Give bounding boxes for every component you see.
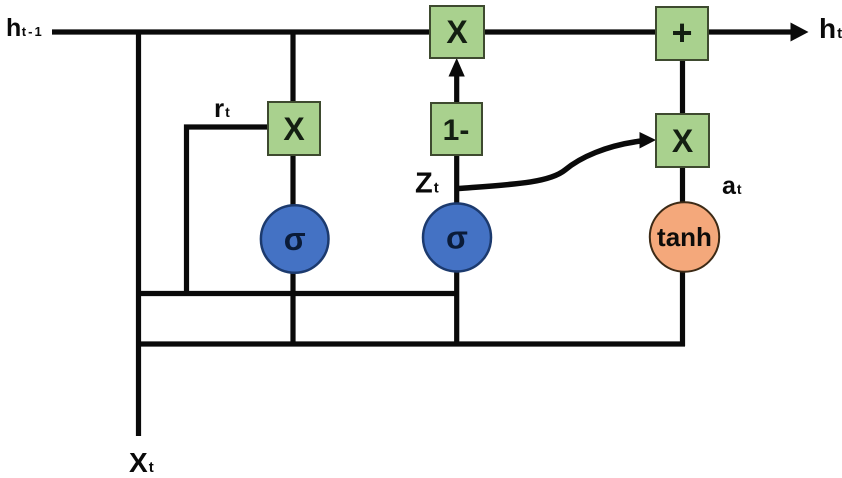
arrowhead: up into top X box (449, 58, 465, 77)
wire: X(t) input vertical (136, 30, 141, 437)
svg-text:X: X (446, 14, 468, 50)
wire: sigma2 (z gate) column vertical (454, 155, 459, 346)
arrowhead: output to h(t) (791, 23, 809, 42)
svg-text:1-: 1- (443, 114, 470, 147)
node: sigma2 circle (update gate) (423, 204, 491, 272)
svg-text:tanh: tanh (657, 222, 712, 252)
svg-text:X: X (283, 111, 305, 147)
svg-text:X: X (672, 123, 694, 159)
gate box: multiply X (top center) (430, 6, 484, 58)
svg-text:σ: σ (446, 220, 468, 256)
node: sigma1 circle (reset gate) (261, 205, 329, 273)
wire: curved z(t) arrow to right X gate (458, 141, 641, 189)
gate box: add + (656, 7, 708, 60)
gate box: multiply X (right) (656, 114, 709, 167)
wire: sigma1 column vertical (290, 32, 295, 346)
arrowhead: curved arrow into right X box (640, 132, 657, 149)
wire: main h(t-1) horizontal line (52, 29, 793, 34)
wire: bus line 1 (input bus) (136, 291, 459, 296)
node: tanh circle (650, 202, 719, 271)
svg-text:+: + (671, 12, 692, 53)
gate box: reset multiply X (left) (268, 102, 320, 155)
wire: up-arrow shaft from 1- box to X box (454, 74, 459, 103)
wire: bus line 2 (to tanh) (136, 341, 685, 346)
svg-text:σ: σ (284, 221, 306, 257)
gate box: 1-minus (431, 103, 482, 155)
wire: r(t) feedback L-shape (187, 127, 269, 296)
wire: plus/tanh column vertical (680, 60, 685, 346)
